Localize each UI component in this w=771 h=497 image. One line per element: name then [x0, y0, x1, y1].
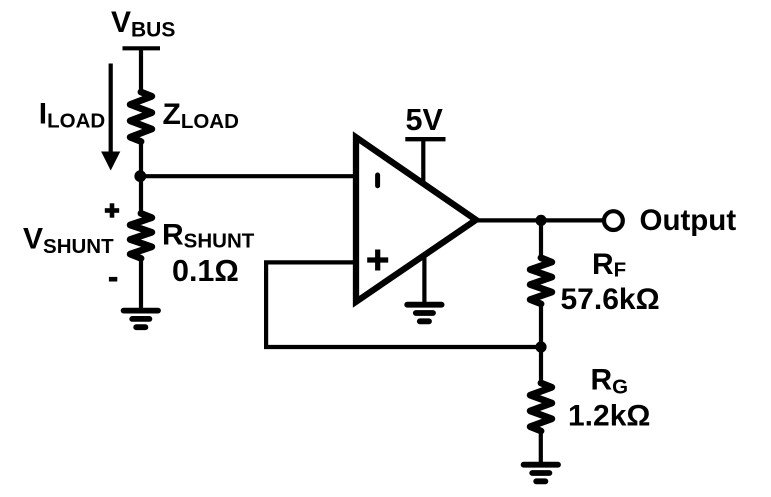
resistor RG — [530, 383, 552, 431]
node A junction dot — [134, 170, 146, 182]
VSHUNT polarity plus sign — [105, 203, 119, 217]
wire op-amp V- to ground — [422, 252, 426, 305]
op-amp non-inverting input marker (plus) — [367, 250, 388, 271]
power rail 5V bar — [405, 137, 445, 141]
svg-text:RSHUNT: RSHUNT — [162, 218, 255, 252]
svg-text:0.1Ω: 0.1Ω — [172, 254, 239, 288]
svg-text:RF: RF — [592, 248, 626, 282]
wire VBUS rail to ZLOAD — [139, 48, 143, 94]
wire RF to node C — [539, 302, 543, 349]
svg-text:RG: RG — [591, 363, 629, 398]
wire node A to RSHUNT — [139, 176, 143, 215]
resistor RF — [530, 258, 552, 304]
svg-text:57.6kΩ: 57.6kΩ — [561, 283, 660, 316]
op-amp inverting input marker (vertical bar) — [375, 175, 380, 186]
power rail VBUS bar — [123, 46, 161, 50]
wire RG to ground — [539, 429, 543, 465]
feedback wire node C to op-amp non-inverting input — [266, 262, 541, 347]
ground below RG — [524, 465, 558, 482]
wire node A to op-amp inverting input — [139, 174, 358, 178]
node C junction dot (feedback node) — [535, 341, 546, 352]
svg-text:VSHUNT: VSHUNT — [23, 223, 114, 259]
output terminal circle — [604, 211, 623, 230]
wire node C to RG — [539, 347, 543, 384]
svg-text:ZLOAD: ZLOAD — [163, 98, 239, 133]
wire ZLOAD to node A — [139, 140, 143, 179]
op-amp U1 triangle — [356, 137, 476, 301]
current arrow ILOAD — [101, 64, 120, 171]
ground below RSHUNT — [124, 311, 158, 328]
ground below op-amp — [407, 305, 441, 322]
svg-text:5V: 5V — [406, 103, 444, 137]
wire 5V rail to op-amp V+ — [421, 139, 425, 186]
svg-text:1.2kΩ: 1.2kΩ — [568, 400, 650, 433]
resistor RSHUNT — [130, 213, 152, 258]
wire node B to RF — [539, 220, 543, 259]
resistor ZLOAD — [130, 92, 152, 142]
wire op-amp output to output terminal — [475, 218, 604, 222]
svg-text:ILOAD: ILOAD — [39, 97, 105, 132]
node B junction dot (output node) — [535, 215, 546, 226]
svg-text:VBUS: VBUS — [111, 6, 175, 42]
svg-text:Output: Output — [640, 204, 737, 237]
wire RSHUNT to ground — [139, 257, 143, 311]
VSHUNT polarity minus sign — [109, 277, 117, 282]
